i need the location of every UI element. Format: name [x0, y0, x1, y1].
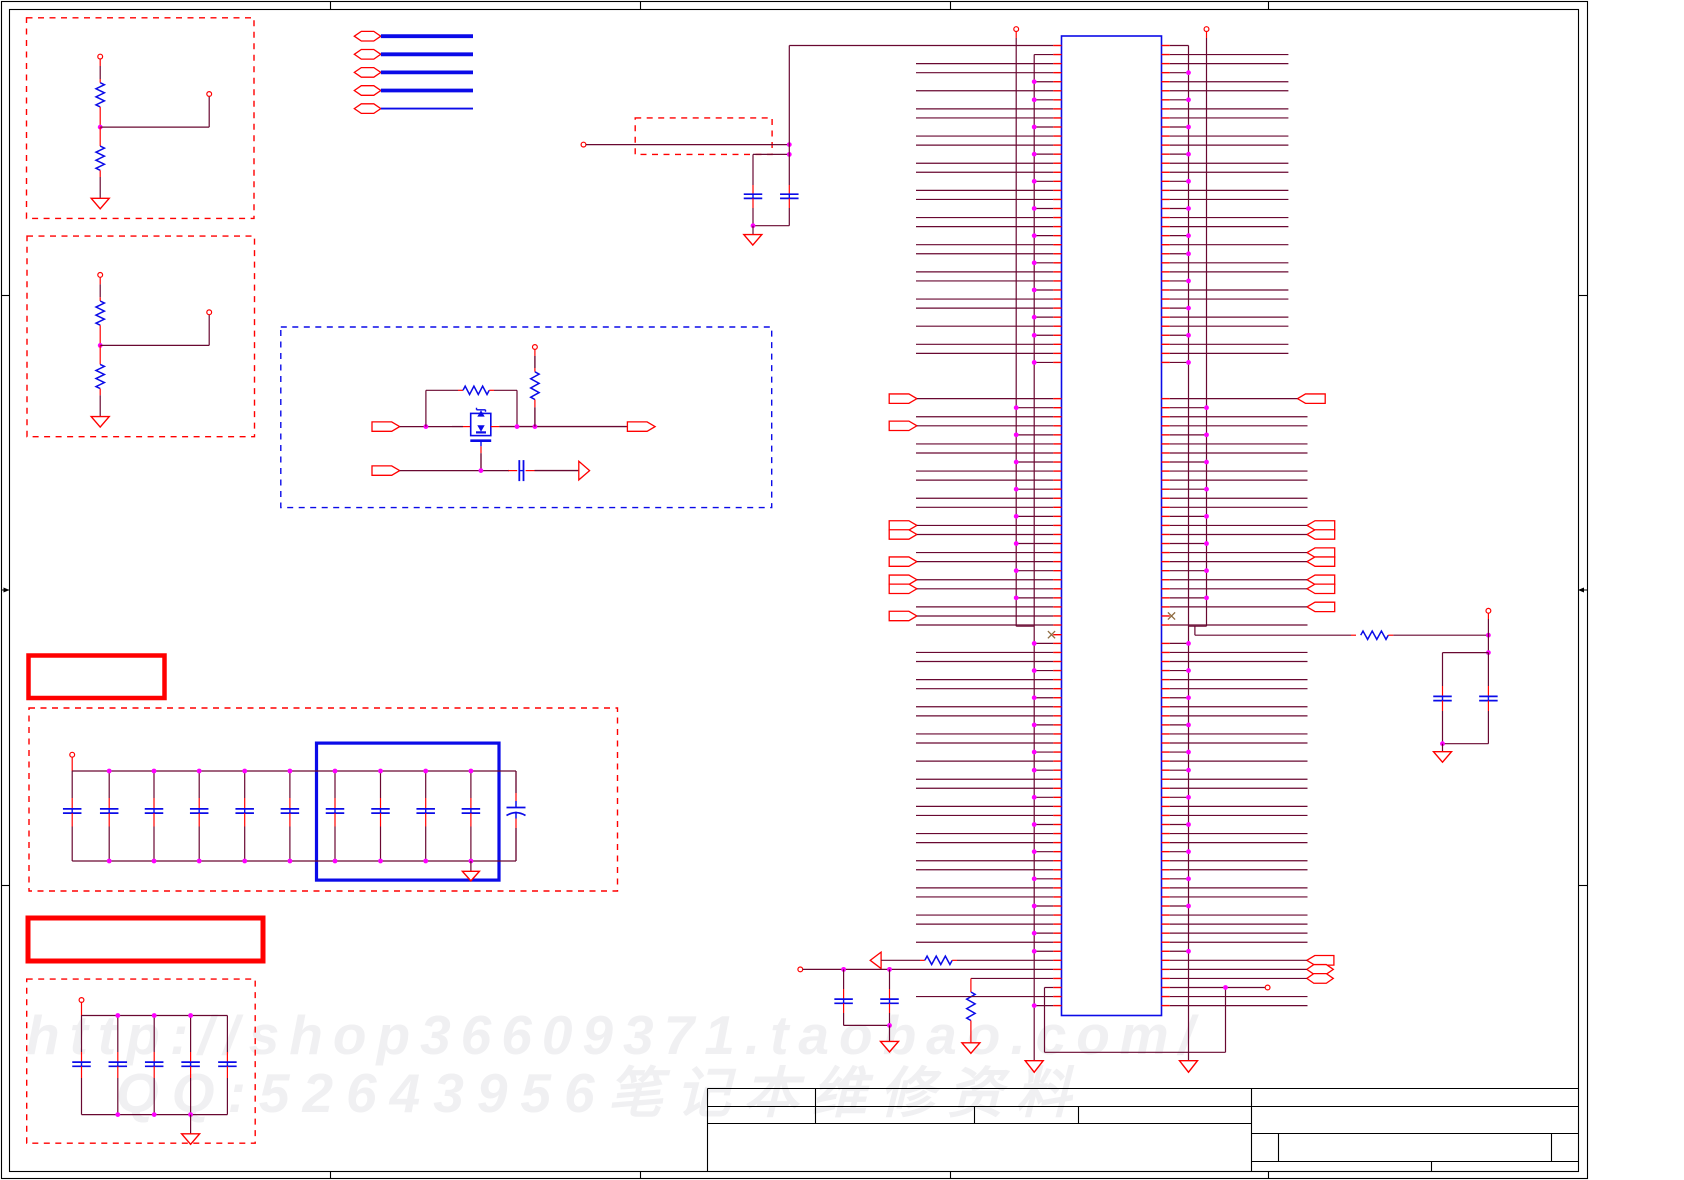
port PR54	[1307, 521, 1335, 530]
wire pin L34	[1053, 343, 1061, 345]
wire pin LL5	[1053, 679, 1061, 681]
capacitor CB2	[108, 771, 110, 798]
junction	[887, 967, 892, 972]
bus wire bottom	[72, 860, 516, 862]
port PL60	[889, 575, 917, 584]
title block right section	[1252, 1089, 1579, 1172]
wire pin L21	[1053, 226, 1061, 228]
junction	[1186, 822, 1191, 827]
port IN1	[372, 422, 400, 431]
junction	[152, 1013, 157, 1018]
wire	[400, 470, 509, 472]
bus port P3	[354, 68, 381, 78]
junction	[1186, 251, 1191, 256]
junction	[1014, 568, 1019, 573]
wire pin L44 to outer rail	[1053, 434, 1061, 436]
wire pin LL30 to rail	[1053, 905, 1061, 907]
wire pin RL2	[1162, 651, 1170, 653]
capacitor CB11 polarized	[515, 771, 517, 793]
junction	[197, 859, 202, 864]
wire tap	[100, 126, 209, 128]
junction	[1032, 179, 1037, 184]
port PL43	[889, 421, 917, 430]
wire pin RL37	[1162, 968, 1170, 970]
wire pin RL29	[1162, 896, 1170, 898]
wire pin R36 to inner rail	[1162, 361, 1170, 363]
junction	[288, 769, 293, 774]
dashed box divider 1	[27, 18, 255, 219]
wire tap	[100, 344, 209, 346]
junction	[1032, 288, 1037, 293]
wire pin R21	[1162, 226, 1170, 228]
wire pin R20	[1162, 217, 1170, 219]
wire pin R22 to inner rail	[1162, 235, 1170, 237]
dashed box divider 2	[27, 236, 255, 437]
wire pin R57	[1162, 552, 1170, 554]
port eye PE2	[1307, 965, 1334, 975]
port PR58	[1307, 557, 1335, 566]
junction	[1032, 260, 1037, 265]
junction	[1186, 97, 1191, 102]
junction	[1186, 233, 1191, 238]
junction	[1186, 360, 1191, 365]
border zone tick left lower	[2, 885, 10, 887]
junction	[479, 468, 484, 473]
wire pin RL8	[1162, 706, 1170, 708]
wire pin LL11	[1053, 733, 1061, 735]
wire pin L2 rail start	[1053, 54, 1061, 56]
power rail right inner	[1188, 46, 1190, 1061]
capacitor C4	[843, 969, 845, 989]
wire rail jog left	[1016, 625, 1034, 627]
wire pin RL26	[1162, 869, 1170, 871]
bus wire top	[82, 1015, 228, 1017]
junction	[242, 859, 247, 864]
power rail right outer	[1204, 27, 1209, 32]
junction	[1204, 595, 1209, 600]
terminal T10	[1486, 608, 1491, 613]
wire	[753, 225, 789, 227]
border zone tick left upper	[2, 295, 10, 297]
wire pin RL24 to rail	[1162, 851, 1170, 853]
wire pin LL9	[1053, 715, 1061, 717]
wire pin LL36	[1053, 959, 1061, 961]
wire pin R51	[1162, 497, 1170, 499]
junction	[424, 424, 429, 429]
wire pin RL22	[1162, 833, 1170, 835]
capacitor CB5	[244, 771, 246, 798]
wire bypass loop	[425, 390, 427, 426]
wire pin R9	[1162, 117, 1170, 119]
wire	[494, 389, 517, 391]
junction	[1032, 641, 1037, 646]
wire pin R49	[1162, 479, 1170, 481]
wire pin R3	[1162, 63, 1170, 65]
wire pin LL34	[1053, 941, 1061, 943]
wire	[1393, 634, 1488, 636]
port PL58	[889, 557, 917, 566]
wire pin RL4 to rail	[1162, 670, 1170, 672]
wire pin L63	[1053, 606, 1061, 608]
wire pin RL36	[1162, 959, 1170, 961]
junction	[1486, 633, 1491, 638]
wire pin R52	[1162, 506, 1170, 508]
junction	[1032, 315, 1037, 320]
wire pin R61	[1162, 588, 1170, 590]
capacitor CB10	[470, 771, 472, 798]
port PL40	[889, 394, 917, 403]
resistor R2	[99, 127, 101, 146]
wire pin RL9	[1162, 715, 1170, 717]
capacitor CB8	[380, 771, 382, 798]
junction	[1032, 233, 1037, 238]
no-connect pin R64	[1162, 615, 1170, 617]
junction	[1186, 695, 1191, 700]
wire pin R18	[1162, 198, 1170, 200]
wire pin R16 to inner rail	[1162, 180, 1170, 182]
wire pin LL32	[1053, 923, 1061, 925]
wire pin LL12	[1053, 742, 1061, 744]
wire	[400, 426, 452, 428]
capacitor CB3	[153, 771, 155, 798]
wire pin RL19	[1162, 805, 1170, 807]
wire pin L13 to inner rail	[1053, 153, 1061, 155]
wire pin L30	[1053, 307, 1061, 309]
junction	[787, 142, 792, 147]
wire pin L29	[1053, 298, 1061, 300]
wire pin LL35 to rail	[1053, 950, 1061, 952]
junction	[1032, 795, 1037, 800]
junction	[423, 769, 428, 774]
ground	[962, 1043, 980, 1054]
wire pin RL17	[1162, 787, 1170, 789]
wire pin LL26	[1053, 869, 1061, 871]
wire pin LL8	[1053, 706, 1061, 708]
junction	[98, 343, 103, 348]
junction	[1032, 949, 1037, 954]
border arrow right	[1578, 589, 1588, 591]
wire pin L55	[1053, 533, 1061, 535]
wire pin R15	[1162, 171, 1170, 173]
bus wire	[381, 52, 473, 56]
junction	[288, 859, 293, 864]
wire pin L56 to outer rail	[1053, 543, 1061, 545]
junction	[378, 859, 383, 864]
wire	[99, 395, 101, 416]
wire pin L35	[1053, 352, 1061, 354]
wire pin L41 to outer rail	[1053, 407, 1061, 409]
dashed box capacitor bank 2	[27, 979, 256, 1143]
wire gate	[480, 442, 482, 446]
wire pin LL7 to rail	[1053, 697, 1061, 699]
wire	[1443, 743, 1489, 745]
wire pin L58	[1053, 561, 1061, 563]
wire pin RL6	[1162, 688, 1170, 690]
capacitor C3	[507, 470, 510, 472]
junction	[1032, 97, 1037, 102]
junction	[1186, 333, 1191, 338]
wire pin R43	[1162, 425, 1170, 427]
junction	[378, 769, 383, 774]
capacitor C1	[752, 154, 754, 185]
wire	[1487, 613, 1489, 619]
no-connect pin L66	[1053, 634, 1061, 636]
junction	[197, 769, 202, 774]
ground	[881, 1041, 899, 1052]
resistor R5	[458, 389, 463, 391]
junction	[1186, 641, 1191, 646]
wire pin R50 to outer rail	[1162, 488, 1170, 490]
wire pin L18	[1053, 198, 1061, 200]
junction	[188, 1013, 193, 1018]
wire pin R24 to inner rail	[1162, 253, 1170, 255]
transistor Q1	[452, 426, 463, 428]
wire pin LL22	[1053, 833, 1061, 835]
wire pin L62 to outer rail	[1053, 597, 1061, 599]
wire pin R6	[1162, 90, 1170, 92]
junction	[1032, 360, 1037, 365]
wire pin L65	[1053, 624, 1061, 626]
wire pin L64	[1053, 615, 1061, 617]
port OUT2	[579, 461, 590, 480]
junction	[1223, 985, 1228, 990]
wire pin L59 to outer rail	[1053, 570, 1061, 572]
wire pin LL10 to rail	[1053, 724, 1061, 726]
wire pin R12	[1162, 144, 1170, 146]
wire	[99, 277, 101, 284]
wire pin L8	[1053, 108, 1061, 110]
connector U1 body	[1062, 36, 1162, 1016]
wire	[71, 757, 73, 771]
wire pin L25 to inner rail	[1053, 262, 1061, 264]
junction	[1204, 460, 1209, 465]
wire	[1194, 626, 1196, 635]
junction	[1032, 849, 1037, 854]
junction	[1186, 306, 1191, 311]
wire pin RL20	[1162, 814, 1170, 816]
terminal T3	[98, 273, 103, 278]
wire pin R8	[1162, 108, 1170, 110]
capacitor CB9	[425, 771, 427, 798]
junction	[1204, 514, 1209, 519]
resistor R4	[99, 345, 101, 364]
junction	[1014, 460, 1019, 465]
wire pin R60	[1162, 579, 1170, 581]
junction	[1204, 432, 1209, 437]
junction	[152, 859, 157, 864]
bus wire	[381, 89, 473, 93]
wire pin L17	[1053, 189, 1061, 191]
wire pin L51	[1053, 497, 1061, 499]
wire pin R63	[1162, 606, 1170, 608]
power rail left inner	[1033, 55, 1035, 1061]
wire pin R46	[1162, 452, 1170, 454]
terminal T1	[98, 54, 103, 59]
wire pin RL7 to rail	[1162, 697, 1170, 699]
capacitor CB4	[198, 771, 200, 798]
wire pin L9	[1053, 117, 1061, 119]
junction	[1186, 904, 1191, 909]
terminal T7	[79, 998, 84, 1003]
wire pin R34	[1162, 343, 1170, 345]
wire pin R35	[1162, 352, 1170, 354]
junction	[1186, 949, 1191, 954]
port eye PE3	[1307, 974, 1334, 984]
wire pin RL5	[1162, 679, 1170, 681]
wire	[844, 1024, 890, 1026]
junction	[1014, 541, 1019, 546]
junction	[1186, 668, 1191, 673]
bus port P1	[354, 31, 381, 41]
wire pin LL20	[1053, 814, 1061, 816]
port eye PE1	[1307, 956, 1334, 966]
wire pin R30 to inner rail	[1162, 307, 1170, 309]
wire pin RL16	[1162, 778, 1170, 780]
junction	[1186, 849, 1191, 854]
wire pin R13 to inner rail	[1162, 153, 1170, 155]
wire pin RL27 to rail	[1162, 878, 1170, 880]
wire pin R23	[1162, 244, 1170, 246]
ground	[462, 871, 479, 881]
wire pin LL18 to rail	[1053, 796, 1061, 798]
wire	[81, 1002, 83, 1015]
title block left section	[708, 1089, 1252, 1172]
wire pin R40	[1162, 398, 1170, 400]
capacitor CB6	[289, 771, 291, 798]
junction	[115, 1112, 120, 1117]
junction	[469, 769, 474, 774]
junction	[1032, 668, 1037, 673]
wire pin L24	[1053, 253, 1061, 255]
wire pin L20	[1053, 217, 1061, 219]
resistor R8	[970, 978, 972, 992]
junction	[515, 424, 520, 429]
junction	[1204, 487, 1209, 492]
junction	[1014, 487, 1019, 492]
wire pin R17	[1162, 189, 1170, 191]
wire pin R41 to outer rail	[1162, 407, 1170, 409]
border zone tick right lower	[1579, 885, 1588, 887]
wire pin L23	[1053, 244, 1061, 246]
wire pin LL37	[1053, 968, 1061, 970]
junction	[1014, 432, 1019, 437]
junction	[787, 152, 792, 157]
port PR60	[1307, 575, 1335, 584]
junction	[152, 1112, 157, 1117]
svg-text:QQ:52643956笔记本维修资料: QQ:52643956笔记本维修资料	[116, 1062, 1084, 1124]
wire pin R48	[1162, 470, 1170, 472]
border arrow left	[2, 589, 10, 591]
wire pin RL3	[1162, 661, 1170, 663]
wire pin LL4 to rail	[1053, 670, 1061, 672]
wire pin LL6	[1053, 688, 1061, 690]
junction	[1186, 722, 1191, 727]
wire	[535, 470, 579, 472]
wire pin L1 to RC group	[1053, 45, 1061, 47]
resistor R7	[881, 959, 920, 961]
wire pin LL16	[1053, 778, 1061, 780]
junction	[1186, 768, 1191, 773]
capacitor CC1	[81, 1016, 83, 1053]
wire pin R44 to outer rail	[1162, 434, 1170, 436]
port PR63	[1307, 602, 1335, 611]
junction	[1014, 514, 1019, 519]
wire pin RL32	[1162, 923, 1170, 925]
capacitor CB1	[71, 771, 73, 798]
junction	[1186, 152, 1191, 157]
capacitor C5	[889, 969, 891, 989]
wire pin R47 to outer rail	[1162, 461, 1170, 463]
junction	[1032, 904, 1037, 909]
wire pin L33 to inner rail	[1053, 334, 1061, 336]
resistor R1	[99, 79, 101, 83]
port OUT1	[627, 422, 655, 431]
wire pin RL21 to rail	[1162, 824, 1170, 826]
wire pin L4	[1053, 72, 1061, 74]
wire pin LL24 to rail	[1053, 851, 1061, 853]
wire pin LL40	[1053, 996, 1061, 998]
wire pin LL28	[1053, 887, 1061, 889]
ground rail right	[1180, 1061, 1198, 1073]
wire pin RL12	[1162, 742, 1170, 744]
wire pin L28 to inner rail	[1053, 289, 1061, 291]
wire pin R59 to outer rail	[1162, 570, 1170, 572]
port IN2	[372, 466, 400, 475]
wire pin R14	[1162, 162, 1170, 164]
bus wire top	[72, 770, 516, 772]
resistor R3	[99, 297, 101, 301]
power rail left outer	[1014, 27, 1019, 32]
wire pin L42	[1053, 416, 1061, 418]
ground	[744, 235, 762, 246]
wire pin L6	[1053, 90, 1061, 92]
wire pin L47 to outer rail	[1053, 461, 1061, 463]
terminal T9	[1265, 985, 1270, 990]
capacitor CC4	[190, 1016, 192, 1053]
junction	[1186, 750, 1191, 755]
wire pin R19 to inner rail	[1162, 207, 1170, 209]
wire pin L61	[1053, 588, 1061, 590]
ground	[91, 417, 109, 428]
junction	[333, 859, 338, 864]
wire pin RL38	[1162, 977, 1170, 979]
wire pin R25	[1162, 262, 1170, 264]
label box 2	[28, 918, 263, 961]
resistor R9	[1351, 634, 1356, 636]
wire	[381, 108, 473, 110]
wire	[190, 1115, 192, 1134]
wire pin L54	[1053, 524, 1061, 526]
wire pin LL1 to rail	[1053, 642, 1061, 644]
junction	[107, 769, 112, 774]
junction	[1032, 1003, 1037, 1008]
wire pin LL13 to rail	[1053, 751, 1061, 753]
junction	[1014, 405, 1019, 410]
wire pin L3	[1053, 63, 1061, 65]
junction	[1186, 179, 1191, 184]
junction	[333, 769, 338, 774]
wire pin RL14	[1162, 760, 1170, 762]
port PL54	[889, 521, 917, 530]
wire	[491, 426, 500, 428]
wire pin L14	[1053, 162, 1061, 164]
terminal T8	[798, 967, 803, 972]
junction	[841, 967, 846, 972]
junction	[469, 859, 474, 864]
junction	[242, 769, 247, 774]
wire pin L46	[1053, 452, 1061, 454]
wire pin RL10 to rail	[1162, 724, 1170, 726]
